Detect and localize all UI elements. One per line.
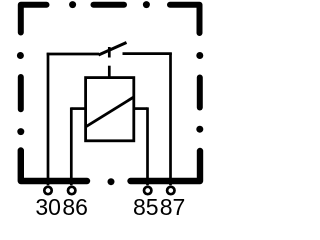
housing outline: bottom dot — [108, 178, 115, 185]
housing outline: bottom-left corner — [21, 151, 87, 182]
mechanical link dash upper (lever to coil) — [108, 47, 111, 58]
housing outline: right dot 2 — [196, 126, 203, 133]
housing outline: left dash — [18, 77, 24, 109]
housing outline: top-right corner — [170, 5, 200, 33]
housing outline: top dot 2 — [143, 1, 150, 8]
terminal 86 pin circle — [68, 187, 75, 194]
terminal 30 pin circle — [44, 187, 51, 194]
terminal 87 pin circle — [167, 187, 174, 194]
wire: coil right lead to terminal 85 — [134, 107, 148, 110]
svg-text:30: 30 — [35, 194, 61, 220]
svg-text:86: 86 — [62, 194, 88, 220]
switch lever (movable contact) — [99, 43, 127, 56]
housing outline: left dot 1 — [17, 52, 24, 59]
relay housing dashed outline: top-left corner — [21, 5, 47, 33]
wire: terminal 30 riser (left side, top line to terminal) — [47, 53, 50, 186]
wire: terminal 86 riser — [70, 107, 73, 185]
housing outline: top dot 1 — [69, 1, 76, 8]
housing outline: right dash — [197, 78, 203, 108]
relay coil K1 (box with diagonal) — [86, 78, 134, 141]
wire: top horizontal from terminal 30 to switch pivot — [47, 53, 99, 56]
mechanical link dash lower — [108, 66, 111, 78]
terminal 85 pin circle — [144, 187, 151, 194]
coil diagonal — [86, 97, 134, 126]
housing outline: bottom-right corner — [131, 151, 201, 181]
wire: top horizontal from switch gap to terminal 87 side — [123, 52, 172, 55]
housing outline: left dot 2 — [17, 128, 24, 135]
housing outline: right dot 1 — [196, 52, 203, 59]
wire: terminal 87 riser (right side) — [169, 53, 172, 186]
housing outline: top dash — [94, 2, 125, 8]
svg-text:87: 87 — [160, 194, 186, 220]
svg-text:85: 85 — [133, 194, 159, 220]
wire: terminal 85 riser — [146, 107, 149, 185]
wire: coil left lead to terminal 86 — [71, 107, 85, 110]
